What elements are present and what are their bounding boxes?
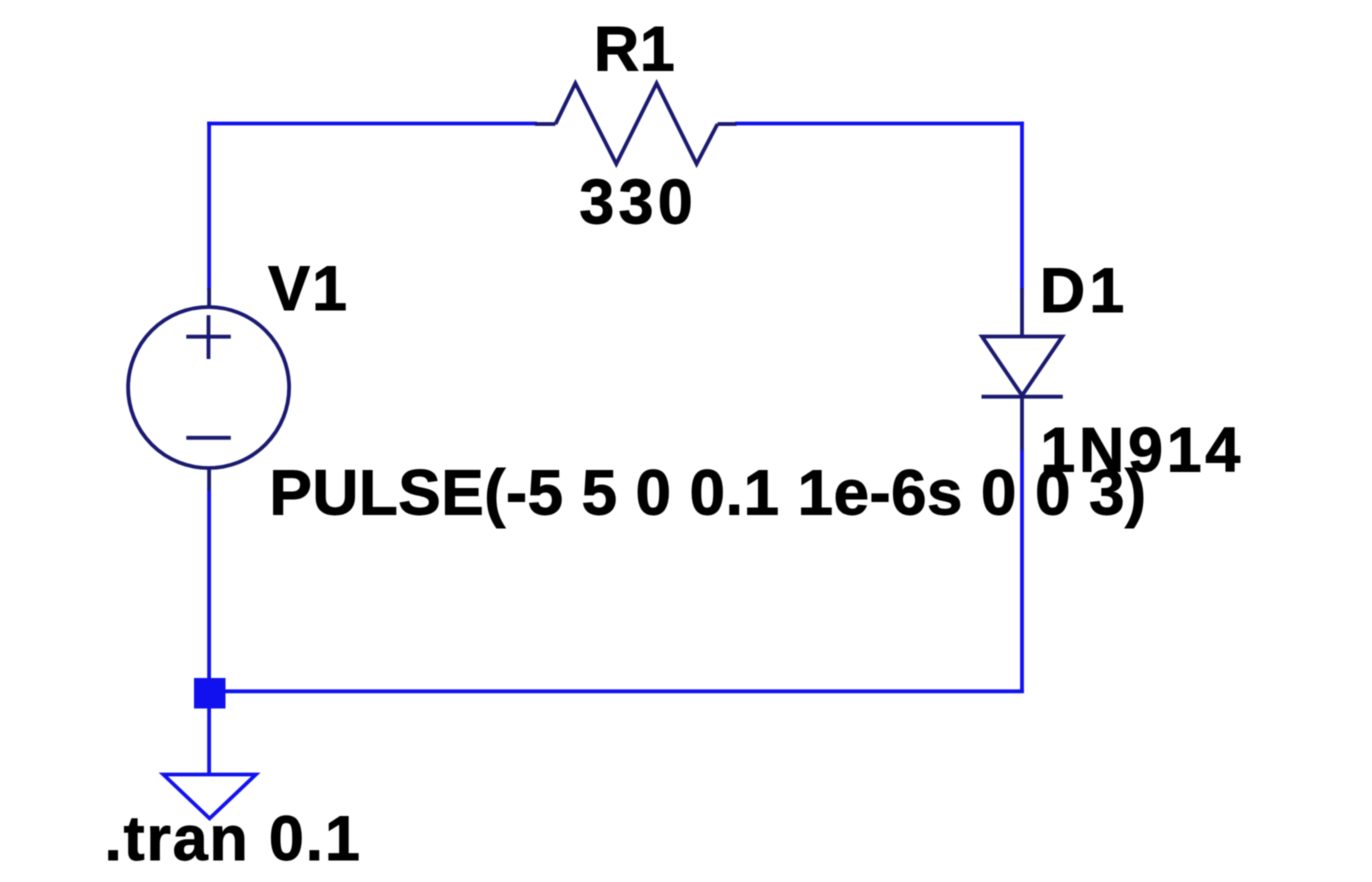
- wire top-right horizontal: [735, 122, 1024, 126]
- junction node: [194, 678, 226, 709]
- label R1: [594, 15, 675, 85]
- diode D1: [982, 288, 1063, 450]
- ground: [163, 775, 256, 819]
- wire right vertical upper: [1020, 122, 1024, 289]
- svg-text:D1: D1: [1040, 256, 1125, 326]
- svg-text:V1: V1: [268, 254, 347, 324]
- label PULSE: [269, 457, 1146, 529]
- svg-text:R1: R1: [594, 15, 675, 85]
- label D1: [1040, 256, 1125, 326]
- wire junction to ground: [207, 692, 211, 775]
- wire left vertical upper: [207, 122, 211, 290]
- wire left vertical lower: [207, 489, 211, 692]
- wire top-left horizontal: [207, 122, 537, 126]
- svg-text:PULSE(-5 5 0 0.1 1e-6s 0 0 3): PULSE(-5 5 0 0.1 1e-6s 0 0 3): [269, 457, 1146, 529]
- label .tran 0.1: [104, 804, 360, 874]
- resistor R1: [535, 83, 737, 164]
- label 1N914: [1040, 416, 1240, 486]
- label 330: [579, 168, 693, 238]
- wire right vertical lower: [1020, 449, 1024, 693]
- label V1: [268, 254, 347, 324]
- svg-text:.tran 0.1: .tran 0.1: [104, 804, 360, 874]
- svg-text:330: 330: [579, 168, 693, 238]
- voltage source V1: [128, 288, 289, 490]
- wire bottom horizontal: [209, 689, 1024, 693]
